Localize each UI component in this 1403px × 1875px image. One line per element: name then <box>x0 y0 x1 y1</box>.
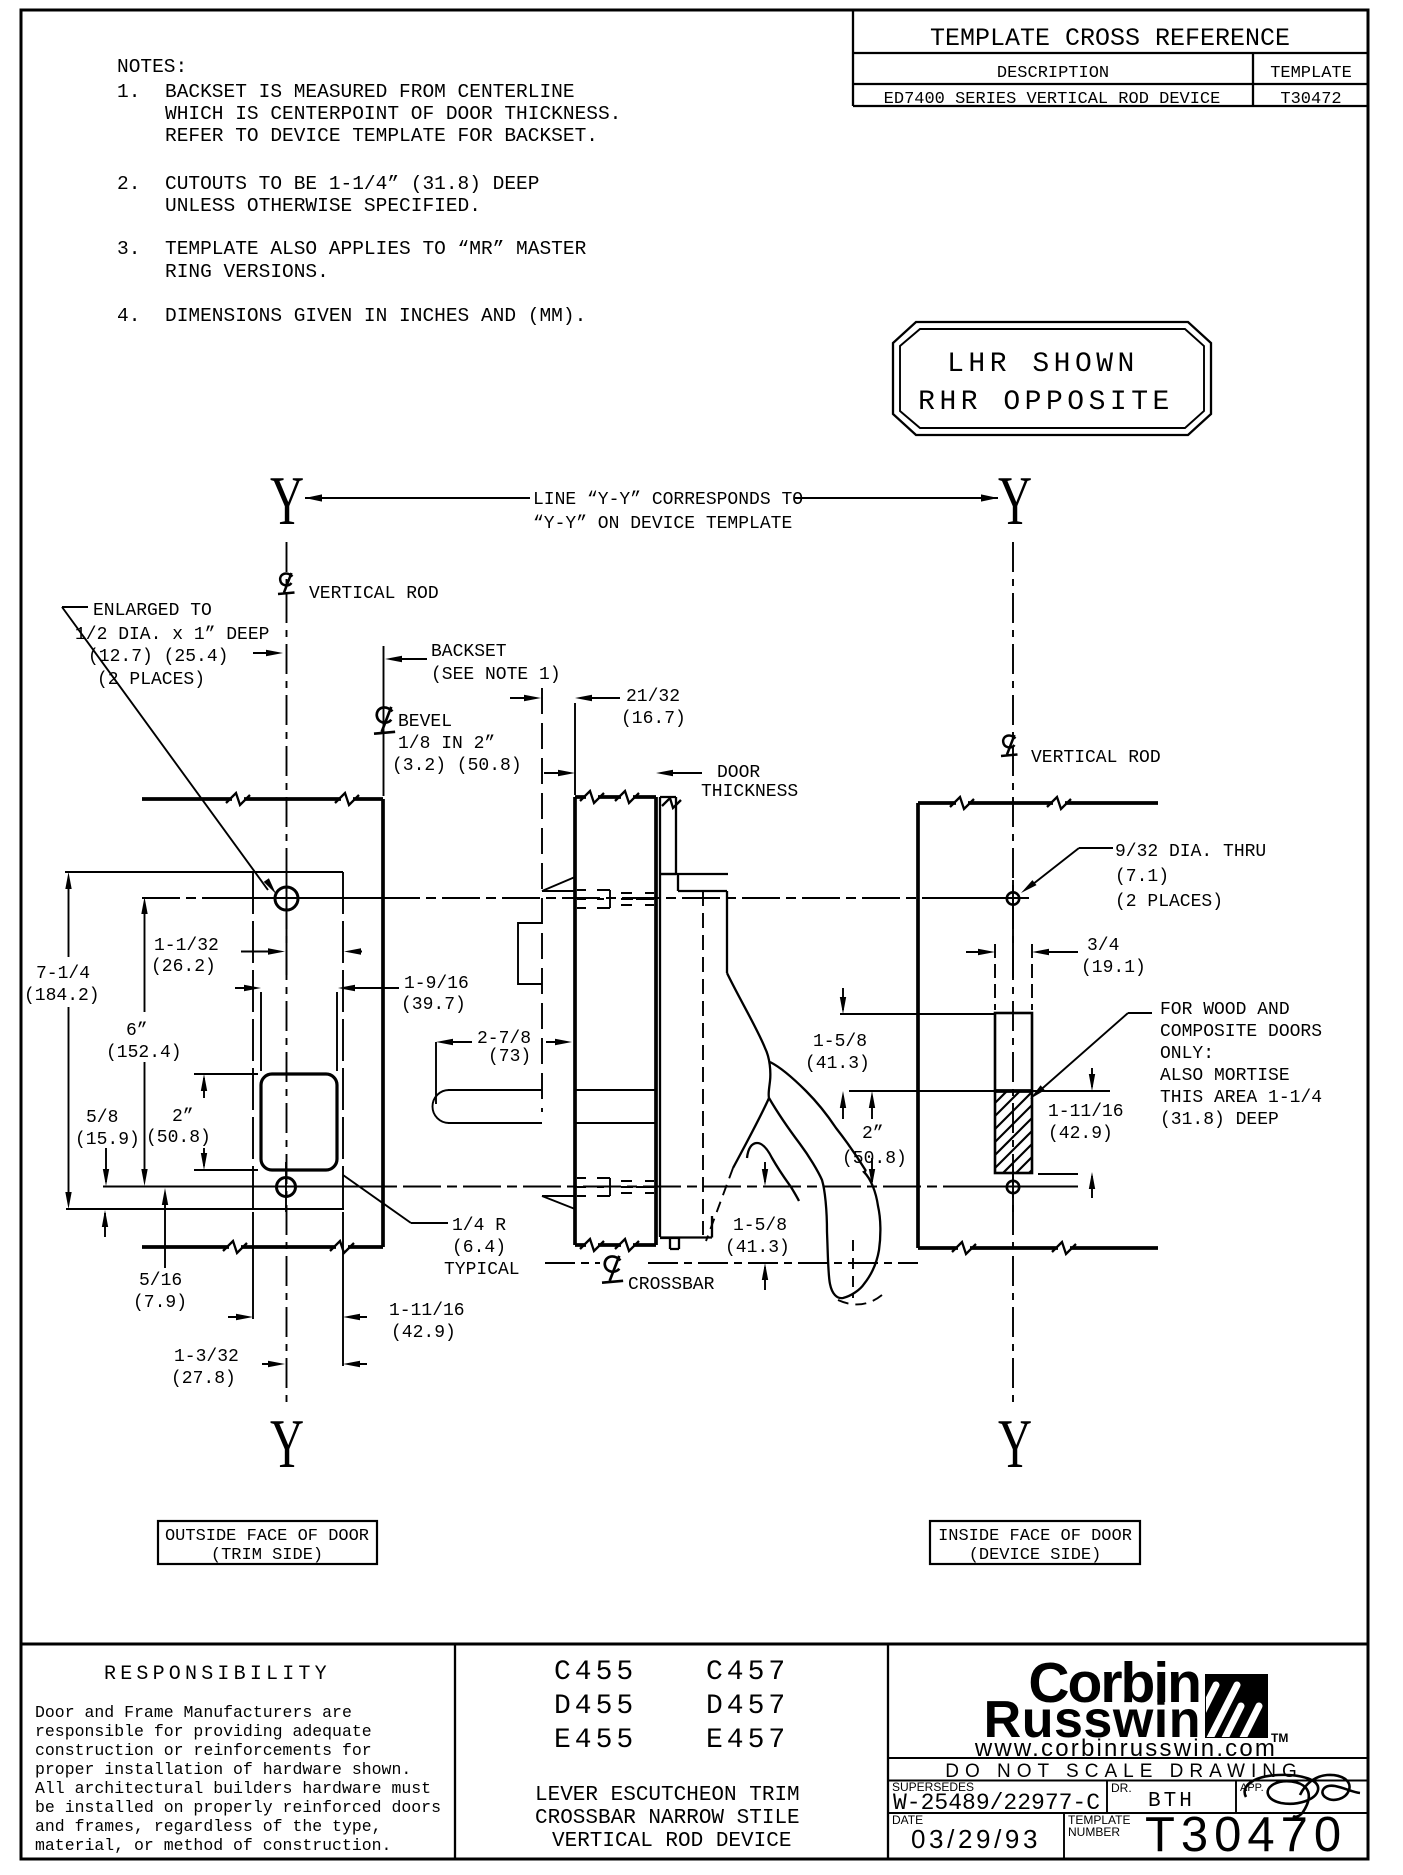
svg-text:DO NOT SCALE DRAWING: DO NOT SCALE DRAWING <box>945 1761 1303 1782</box>
svg-text:(12.7) (25.4): (12.7) (25.4) <box>88 647 228 667</box>
svg-text:1-11/16: 1-11/16 <box>1048 1102 1124 1122</box>
svg-text:(2 PLACES): (2 PLACES) <box>97 670 205 690</box>
svg-text:1.: 1. <box>117 81 140 103</box>
svg-text:T30470: T30470 <box>1145 1808 1347 1862</box>
svg-text:(41.3): (41.3) <box>725 1238 790 1258</box>
svg-text:(184.2): (184.2) <box>24 986 100 1006</box>
svg-text:3/4: 3/4 <box>1087 936 1119 956</box>
svg-text:ED7400 SERIES VERTICAL ROD DEV: ED7400 SERIES VERTICAL ROD DEVICE <box>884 90 1221 109</box>
svg-text:(152.4): (152.4) <box>106 1043 182 1063</box>
svg-text:BEVEL: BEVEL <box>398 712 452 732</box>
svg-text:FOR WOOD AND: FOR WOOD AND <box>1160 1000 1290 1020</box>
svg-text:TYPICAL: TYPICAL <box>444 1260 520 1280</box>
svg-text:1/8 IN 2”: 1/8 IN 2” <box>398 734 495 754</box>
svg-text:2”: 2” <box>862 1124 884 1144</box>
svg-text:(DEVICE SIDE): (DEVICE SIDE) <box>969 1546 1102 1565</box>
svg-text:ONLY:: ONLY: <box>1160 1044 1214 1064</box>
svg-text:(7.1): (7.1) <box>1115 867 1169 887</box>
svg-text:LHR SHOWN: LHR SHOWN <box>947 349 1139 380</box>
svg-text:CROSSBAR: CROSSBAR <box>628 1275 715 1295</box>
svg-text:Y: Y <box>998 1406 1032 1483</box>
svg-text:C455: C455 <box>554 1657 637 1688</box>
svg-text:(50.8): (50.8) <box>146 1128 211 1148</box>
svg-text:proper installation of hardwar: proper installation of hardware shown. <box>35 1760 411 1779</box>
svg-text:DESCRIPTION: DESCRIPTION <box>997 64 1109 83</box>
svg-text:LINE “Y-Y” CORRESPONDS TO: LINE “Y-Y” CORRESPONDS TO <box>533 490 803 510</box>
svg-text:RING VERSIONS.: RING VERSIONS. <box>165 261 329 283</box>
svg-text:C457: C457 <box>706 1657 789 1688</box>
svg-text:(16.7): (16.7) <box>621 709 686 729</box>
svg-text:(7.9): (7.9) <box>133 1293 187 1313</box>
svg-text:(73): (73) <box>488 1047 531 1067</box>
svg-text:5/16: 5/16 <box>139 1271 182 1291</box>
svg-text:Y: Y <box>270 463 304 540</box>
svg-text:ENLARGED TO: ENLARGED TO <box>93 601 212 621</box>
svg-text:DIMENSIONS GIVEN IN INCHES AND: DIMENSIONS GIVEN IN INCHES AND (MM). <box>165 305 586 327</box>
svg-text:LEVER ESCUTCHEON TRIM: LEVER ESCUTCHEON TRIM <box>535 1784 800 1807</box>
svg-text:3.: 3. <box>117 238 140 260</box>
svg-text:VERTICAL ROD: VERTICAL ROD <box>309 584 439 604</box>
svg-text:REFER TO DEVICE TEMPLATE FOR B: REFER TO DEVICE TEMPLATE FOR BACKSET. <box>165 125 598 147</box>
svg-text:2”: 2” <box>172 1107 194 1127</box>
svg-text:03/29/93: 03/29/93 <box>911 1824 1041 1854</box>
svg-text:(39.7): (39.7) <box>401 995 466 1015</box>
svg-text:COMPOSITE DOORS: COMPOSITE DOORS <box>1160 1022 1322 1042</box>
svg-text:TEMPLATE: TEMPLATE <box>1270 64 1352 83</box>
svg-text:(42.9): (42.9) <box>1048 1124 1113 1144</box>
svg-text:21/32: 21/32 <box>626 687 680 707</box>
svg-text:(SEE NOTE 1): (SEE NOTE 1) <box>431 665 561 685</box>
svg-text:D455: D455 <box>554 1691 637 1722</box>
svg-text:1-3/32: 1-3/32 <box>174 1347 239 1367</box>
svg-text:All architectural builders har: All architectural builders hardware must <box>35 1779 431 1798</box>
svg-text:THICKNESS: THICKNESS <box>701 782 798 802</box>
svg-text:1-1/32: 1-1/32 <box>154 936 219 956</box>
svg-text:1-9/16: 1-9/16 <box>404 974 469 994</box>
svg-text:NOTES:: NOTES: <box>117 56 187 78</box>
svg-text:CROSSBAR NARROW STILE: CROSSBAR NARROW STILE <box>535 1807 800 1830</box>
svg-text:WHICH IS CENTERPOINT OF DOOR T: WHICH IS CENTERPOINT OF DOOR THICKNESS. <box>165 103 621 125</box>
svg-text:BACKSET: BACKSET <box>431 642 507 662</box>
svg-text:(26.2): (26.2) <box>151 957 216 977</box>
svg-text:DR.: DR. <box>1111 1781 1132 1795</box>
svg-text:(15.9): (15.9) <box>75 1130 140 1150</box>
svg-text:NUMBER: NUMBER <box>1068 1825 1120 1839</box>
svg-text:THIS AREA 1-1/4: THIS AREA 1-1/4 <box>1160 1088 1322 1108</box>
svg-text:T30472: T30472 <box>1280 90 1341 109</box>
svg-text:E457: E457 <box>706 1725 789 1756</box>
svg-text:UNLESS OTHERWISE SPECIFIED.: UNLESS OTHERWISE SPECIFIED. <box>165 195 481 217</box>
svg-text:5/8: 5/8 <box>86 1108 118 1128</box>
svg-text:1-5/8: 1-5/8 <box>733 1216 787 1236</box>
svg-text:Door and Frame Manufacturers a: Door and Frame Manufacturers are <box>35 1703 352 1722</box>
svg-text:D457: D457 <box>706 1691 789 1722</box>
svg-text:be installed on properly reinf: be installed on properly reinforced door… <box>35 1798 441 1817</box>
svg-text:(50.8): (50.8) <box>842 1149 907 1169</box>
svg-text:4.: 4. <box>117 305 140 327</box>
svg-text:Y: Y <box>270 1406 304 1483</box>
svg-text:“Y-Y” ON DEVICE TEMPLATE: “Y-Y” ON DEVICE TEMPLATE <box>533 514 792 534</box>
svg-text:OUTSIDE FACE OF DOOR: OUTSIDE FACE OF DOOR <box>165 1527 369 1546</box>
svg-text:CUTOUTS TO BE 1-1/4” (31.8) DE: CUTOUTS TO BE 1-1/4” (31.8) DEEP <box>165 173 539 195</box>
svg-text:TEMPLATE ALSO APPLIES TO “MR”: TEMPLATE ALSO APPLIES TO “MR” MASTER <box>165 238 587 260</box>
svg-text:material, or method of constru: material, or method of construction. <box>35 1836 391 1855</box>
svg-text:DOOR: DOOR <box>717 763 760 783</box>
svg-text:(31.8) DEEP: (31.8) DEEP <box>1160 1110 1279 1130</box>
svg-text:RHR OPPOSITE: RHR OPPOSITE <box>918 387 1174 418</box>
svg-text:(41.3): (41.3) <box>805 1054 870 1074</box>
svg-text:BACKSET IS MEASURED FROM CENTE: BACKSET IS MEASURED FROM CENTERLINE <box>165 81 575 103</box>
svg-text:(42.9): (42.9) <box>391 1323 456 1343</box>
svg-text:ALSO MORTISE: ALSO MORTISE <box>1160 1066 1290 1086</box>
svg-text:and frames, regardless of the: and frames, regardless of the type, <box>35 1817 382 1836</box>
svg-text:(27.8): (27.8) <box>171 1369 236 1389</box>
svg-text:E455: E455 <box>554 1725 637 1756</box>
svg-text:Y: Y <box>998 463 1032 540</box>
svg-text:(19.1): (19.1) <box>1081 958 1146 978</box>
svg-text:1/2 DIA. x 1” DEEP: 1/2 DIA. x 1” DEEP <box>75 625 269 645</box>
svg-text:1-11/16: 1-11/16 <box>389 1301 465 1321</box>
svg-text:construction or reinforcements: construction or reinforcements for <box>35 1741 372 1760</box>
svg-text:responsible for providing adeq: responsible for providing adequate <box>35 1722 372 1741</box>
svg-text:1/4 R: 1/4 R <box>452 1216 506 1236</box>
svg-text:2-7/8: 2-7/8 <box>477 1029 531 1049</box>
svg-text:(2 PLACES): (2 PLACES) <box>1115 892 1223 912</box>
svg-text:RESPONSIBILITY: RESPONSIBILITY <box>104 1663 331 1686</box>
svg-text:2.: 2. <box>117 173 140 195</box>
svg-text:(TRIM SIDE): (TRIM SIDE) <box>211 1546 323 1565</box>
svg-text:(3.2) (50.8): (3.2) (50.8) <box>392 756 522 776</box>
svg-text:1-5/8: 1-5/8 <box>813 1032 867 1052</box>
svg-text:9/32 DIA. THRU: 9/32 DIA. THRU <box>1115 842 1266 862</box>
svg-text:VERTICAL ROD DEVICE: VERTICAL ROD DEVICE <box>552 1830 791 1853</box>
svg-text:VERTICAL ROD: VERTICAL ROD <box>1031 748 1161 768</box>
svg-text:INSIDE FACE OF DOOR: INSIDE FACE OF DOOR <box>938 1527 1132 1546</box>
svg-text:(6.4): (6.4) <box>452 1238 506 1258</box>
svg-text:7-1/4: 7-1/4 <box>36 964 90 984</box>
svg-text:TEMPLATE CROSS REFERENCE: TEMPLATE CROSS REFERENCE <box>930 24 1290 53</box>
svg-text:6”: 6” <box>126 1021 148 1041</box>
